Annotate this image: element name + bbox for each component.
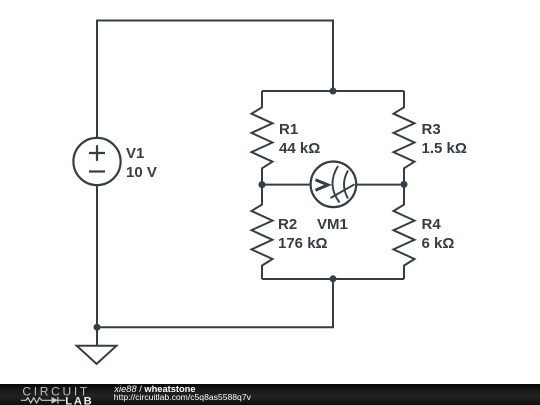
svg-text:LAB: LAB [65, 396, 93, 405]
